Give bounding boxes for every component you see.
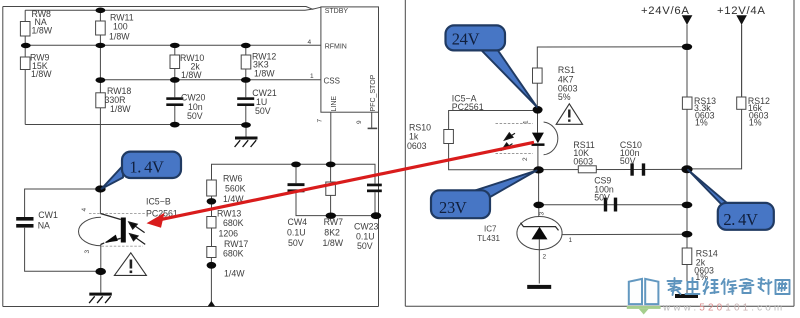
- svg-text:1/8W: 1/8W: [109, 32, 130, 42]
- node rowA-CW4: [291, 162, 301, 168]
- wire rail RS13 bottom: [686, 109, 688, 205]
- svg-text:RFMIN: RFMIN: [325, 44, 347, 51]
- wire RS10 top: [449, 111, 538, 130]
- svg-text:3: 3: [539, 212, 546, 216]
- svg-text:1/8W: 1/8W: [32, 26, 53, 36]
- node row2-RW11: [96, 43, 106, 48]
- wire RW11 stubs: [99, 10, 101, 21]
- left box component labels: [30, 9, 379, 279]
- svg-text:24V: 24V: [452, 29, 480, 48]
- pin 7 LINE wire: [330, 112, 332, 164]
- node rowB-RW7: [326, 213, 336, 219]
- svg-text:1. 4V: 1. 4V: [129, 157, 164, 176]
- svg-text:RW17: RW17: [224, 239, 248, 249]
- node +24V/6A supply: [641, 5, 692, 25]
- svg-text:50V: 50V: [357, 241, 373, 251]
- wire +24V rail: [686, 25, 688, 97]
- transistor IC7 TL431 shunt regulator: [517, 217, 562, 250]
- wire row3 CSS net: [100, 79, 321, 81]
- wire RW18 column: [99, 45, 101, 93]
- node row4-CW20: [170, 122, 180, 128]
- node rowD left TL431 cathode: [533, 202, 544, 209]
- wire CW2 bottom stub: [374, 192, 376, 215]
- photon arrow from IC5-A upper: [505, 133, 516, 140]
- photon arrow into IC5-B upper: [129, 222, 145, 233]
- photon arrow from IC5-A lower: [502, 143, 513, 150]
- node rowE rail: [682, 231, 693, 238]
- svg-text:8K2: 8K2: [324, 228, 340, 238]
- resistor RW11: [96, 21, 106, 35]
- svg-text:LINE: LINE: [331, 96, 338, 112]
- wire TL431 anode: [538, 250, 540, 284]
- wire RS12 stub: [741, 25, 743, 97]
- resistor RW12: [241, 55, 251, 69]
- wire rowA: [212, 164, 376, 183]
- wire RW10 stubs: [174, 45, 176, 55]
- resistor RW8: [20, 22, 30, 37]
- resistor RS14: [682, 248, 692, 265]
- ground bar TL431 anode: [527, 285, 551, 289]
- wire rowE TL431 ref: [562, 233, 687, 235]
- node row2-RW10: [170, 43, 180, 48]
- node RW17 bottom: [207, 262, 217, 269]
- svg-text:RW13: RW13: [217, 209, 241, 219]
- warning triangle left: [114, 253, 146, 276]
- svg-text:1/8W: 1/8W: [181, 70, 202, 80]
- svg-text:RW7: RW7: [324, 217, 343, 227]
- wire left-box bottom border: [3, 306, 379, 308]
- callout 1.4V: [102, 152, 182, 189]
- svg-text:IC5−B: IC5−B: [146, 197, 171, 207]
- right box component labels: [407, 65, 770, 282]
- node RS1-LED 24V point: [533, 106, 543, 114]
- svg-text:23V: 23V: [439, 198, 467, 217]
- wire rowD CS9: [539, 204, 687, 206]
- resistor RW13: [207, 217, 216, 229]
- node +24V rail tap: [682, 44, 692, 50]
- svg-text:1/4W: 1/4W: [224, 269, 245, 279]
- wire RW6 chain: [211, 196, 213, 217]
- svg-text:1/8W: 1/8W: [31, 69, 52, 79]
- wire +12V rail down: [687, 25, 742, 169]
- op-amp U1 controller IC box: [321, 7, 379, 112]
- node rowB-CW2: [371, 212, 381, 219]
- svg-text:1/8W: 1/8W: [254, 69, 275, 79]
- svg-text:1: 1: [523, 120, 530, 124]
- wire ground stub CW1: [100, 271, 102, 292]
- resistor RW9: [20, 57, 30, 70]
- capacitor CS10: [630, 163, 633, 175]
- svg-text:0.1U: 0.1U: [356, 232, 375, 242]
- resistor RW17: [207, 247, 216, 258]
- warning triangle right: [556, 104, 582, 125]
- node RW8-RW9: [21, 43, 31, 48]
- svg-text:1: 1: [569, 237, 573, 244]
- svg-text:0603: 0603: [573, 156, 593, 166]
- wire RW8-RW9: [24, 36, 26, 57]
- svg-text:1k: 1k: [409, 132, 419, 142]
- wire RS1 to LED node: [536, 83, 538, 110]
- wire left-box left border: [2, 7, 4, 307]
- node RW6-RW13: [207, 198, 217, 204]
- svg-text:50V: 50V: [288, 238, 304, 248]
- ground under CW1/IC5-B: [89, 293, 112, 304]
- node row3-RW18: [96, 77, 106, 83]
- node row1-RW11: [96, 8, 106, 14]
- svg-text:680K: 680K: [223, 218, 244, 228]
- node rail divider 2.4V point: [681, 165, 692, 173]
- svg-text:www.520101.com: www.520101.com: [662, 303, 785, 314]
- capacitor CS9: [604, 198, 607, 212]
- svg-text:+12V/4A: +12V/4A: [717, 5, 766, 17]
- svg-text:CSS: CSS: [324, 77, 340, 86]
- wire TL431 cathode: [538, 205, 540, 217]
- svg-text:50V: 50V: [255, 106, 271, 116]
- node row3-CW20: [170, 77, 180, 83]
- svg-text:CW20: CW20: [181, 93, 206, 103]
- svg-text:IC7: IC7: [484, 225, 497, 234]
- svg-text:4: 4: [81, 208, 88, 212]
- photon arrow into IC5-B lower: [130, 234, 146, 245]
- svg-text:1%: 1%: [749, 117, 762, 127]
- wire RS14 top: [686, 234, 688, 248]
- transistor IC5-B PC2561 phototransistor: [79, 214, 145, 247]
- svg-text:PC2561: PC2561: [452, 102, 484, 112]
- wire RW8 top stub: [24, 10, 26, 21]
- capacitor CW20: [166, 97, 183, 100]
- watermark logo book icon: [629, 279, 659, 304]
- wire CW20 stubs: [174, 80, 176, 98]
- IC pin names: [308, 8, 378, 124]
- pin 9 PFC_STOP stub: [371, 112, 373, 128]
- node rowD rail: [682, 202, 693, 209]
- wire IC5-B collector: [99, 189, 101, 214]
- node row4-CW21-gnd: [241, 122, 251, 128]
- wire rowC RS11/CS10: [539, 168, 688, 170]
- svg-text:100: 100: [113, 22, 128, 32]
- svg-text:STDBY: STDBY: [325, 8, 349, 15]
- svg-text:RW6: RW6: [223, 174, 242, 184]
- wire RW12 stubs: [245, 45, 247, 55]
- callout 23V: [431, 171, 537, 219]
- resistor RS10: [444, 130, 454, 144]
- svg-text:TL431: TL431: [477, 234, 500, 243]
- callout 2.4V: [688, 170, 774, 230]
- capacitor CW21: [237, 97, 254, 100]
- resistor RW6: [207, 180, 217, 196]
- node collector IC5-B 1.4V: [95, 185, 106, 192]
- node emitter IC5-B: [95, 268, 106, 275]
- wire row1 STDBY net: [25, 9, 314, 10]
- svg-text:CW4: CW4: [288, 217, 308, 227]
- node bottom border tap triangle: [208, 301, 215, 306]
- wire left-box top border: [3, 7, 321, 10]
- node rowA-RW7-LINE: [326, 162, 336, 168]
- wire CW4 top stub: [295, 164, 297, 183]
- svg-text:50V: 50V: [620, 156, 636, 166]
- wire row2 RFMIN net: [25, 44, 321, 46]
- svg-text:1: 1: [310, 73, 314, 80]
- wire RW7 stubs: [330, 164, 332, 182]
- node row3-CW21: [241, 77, 251, 83]
- wire node23 down to rowD: [538, 170, 540, 205]
- wire CW1 loop: [25, 189, 101, 217]
- wire RS10 bottom: [449, 144, 539, 170]
- svg-text:0.1U: 0.1U: [287, 228, 306, 238]
- resistor RS11 horizontal: [578, 166, 596, 173]
- node row2-RW12: [241, 43, 251, 48]
- svg-text:50V: 50V: [594, 192, 610, 202]
- svg-text:1/8W: 1/8W: [323, 238, 344, 248]
- wire row4: [25, 124, 246, 126]
- wire CW21 stubs: [245, 80, 247, 98]
- svg-text:2: 2: [522, 157, 529, 161]
- diode LED IC5-A PC2561: [496, 122, 558, 155]
- svg-text:NA: NA: [38, 221, 50, 231]
- svg-text:680K: 680K: [223, 249, 244, 259]
- wire RS14 bottom: [686, 265, 688, 295]
- svg-text:PFC_STOP: PFC_STOP: [370, 74, 377, 111]
- resistor RW7: [326, 182, 336, 195]
- wire ground stub CW21: [245, 125, 247, 137]
- wire +24V to RS1: [537, 47, 687, 68]
- svg-text:1/8W: 1/8W: [110, 104, 131, 114]
- resistor RS12: [737, 97, 746, 109]
- right box borders: [405, 0, 794, 306]
- svg-text:0603: 0603: [407, 141, 427, 151]
- wire left-box right border: [378, 7, 380, 307]
- svg-text:50V: 50V: [187, 111, 203, 121]
- wire IC5-B emitter pin: [100, 244, 102, 271]
- svg-text:5%: 5%: [558, 92, 571, 102]
- wire RW9 bottom to row4: [24, 70, 26, 125]
- svg-text:560K: 560K: [225, 184, 246, 194]
- svg-text:7: 7: [317, 119, 324, 123]
- resistor RW18: [96, 93, 106, 108]
- capacitor CW4: [288, 183, 305, 186]
- resistor RS13: [682, 97, 692, 109]
- svg-text:2: 2: [543, 254, 547, 261]
- capacitor CW2: [367, 184, 382, 187]
- wire rowB: [296, 192, 376, 215]
- resistor RS1: [533, 68, 543, 83]
- capacitor CW1: [16, 217, 33, 221]
- red annotation arrow LED to phototransistor: [147, 142, 535, 228]
- svg-text:4: 4: [308, 39, 312, 46]
- svg-text:3: 3: [84, 250, 91, 254]
- svg-text:+24V/6A: +24V/6A: [641, 5, 690, 17]
- callout 24V: [446, 25, 537, 106]
- wire LED cathode down: [537, 146, 539, 170]
- svg-text:9: 9: [356, 120, 363, 124]
- wire LED anode from node: [537, 110, 539, 132]
- svg-text:CW1: CW1: [38, 210, 58, 220]
- node LED cathode 23V point: [533, 166, 543, 173]
- ground under CW21: [235, 137, 258, 148]
- resistor RW10: [170, 55, 180, 69]
- watermark text jiadian weixiu ziliao wang: [668, 278, 790, 295]
- node +12V/4A supply: [717, 5, 766, 25]
- svg-text:1%: 1%: [695, 117, 708, 127]
- svg-text:CW23: CW23: [354, 222, 379, 232]
- svg-text:1206: 1206: [219, 229, 239, 239]
- svg-text:2. 4V: 2. 4V: [723, 210, 758, 229]
- wire rail rowD to rowE: [686, 205, 688, 234]
- ground bar RS14 bottom: [675, 294, 698, 298]
